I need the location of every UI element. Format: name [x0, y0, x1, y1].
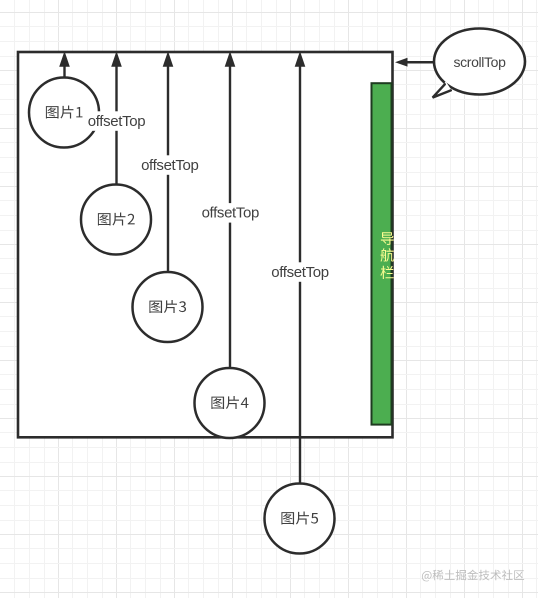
svg-text:offsetTop: offsetTop	[141, 157, 198, 174]
svg-text:offsetTop: offsetTop	[202, 205, 259, 222]
label offsetTop 3	[200, 203, 261, 223]
label offsetTop 1	[86, 111, 147, 131]
watermark @稀土掘金技术社区	[422, 570, 524, 582]
circle 图片5	[265, 484, 335, 554]
svg-text:offsetTop: offsetTop	[271, 264, 328, 281]
circle 图片1	[29, 78, 99, 148]
nav bar text lan	[380, 266, 393, 279]
arrow from 图片3 to top edge	[163, 53, 172, 273]
circle 图片3	[133, 272, 203, 342]
nav bar text dao	[381, 232, 394, 245]
arrow scrollTop to container	[395, 58, 434, 67]
speech bubble scrollTop	[431, 29, 526, 100]
nav bar text hang	[380, 248, 394, 262]
circle 图片2	[81, 185, 151, 255]
arrow from 图片4 to top edge	[225, 53, 234, 369]
label offsetTop 2	[139, 155, 200, 175]
nav bar 导航栏 (green)	[372, 83, 392, 424]
label offsetTop 4	[270, 262, 331, 282]
arrow from 图片5 to top edge	[295, 53, 304, 485]
circle 图片4	[195, 368, 265, 438]
svg-text:scrollTop: scrollTop	[453, 54, 506, 70]
container rectangle (page)	[18, 52, 393, 437]
svg-text:offsetTop: offsetTop	[88, 113, 145, 130]
arrow from 图片2 to top edge	[112, 53, 121, 186]
arrow from 图片1 to top edge	[60, 53, 69, 79]
